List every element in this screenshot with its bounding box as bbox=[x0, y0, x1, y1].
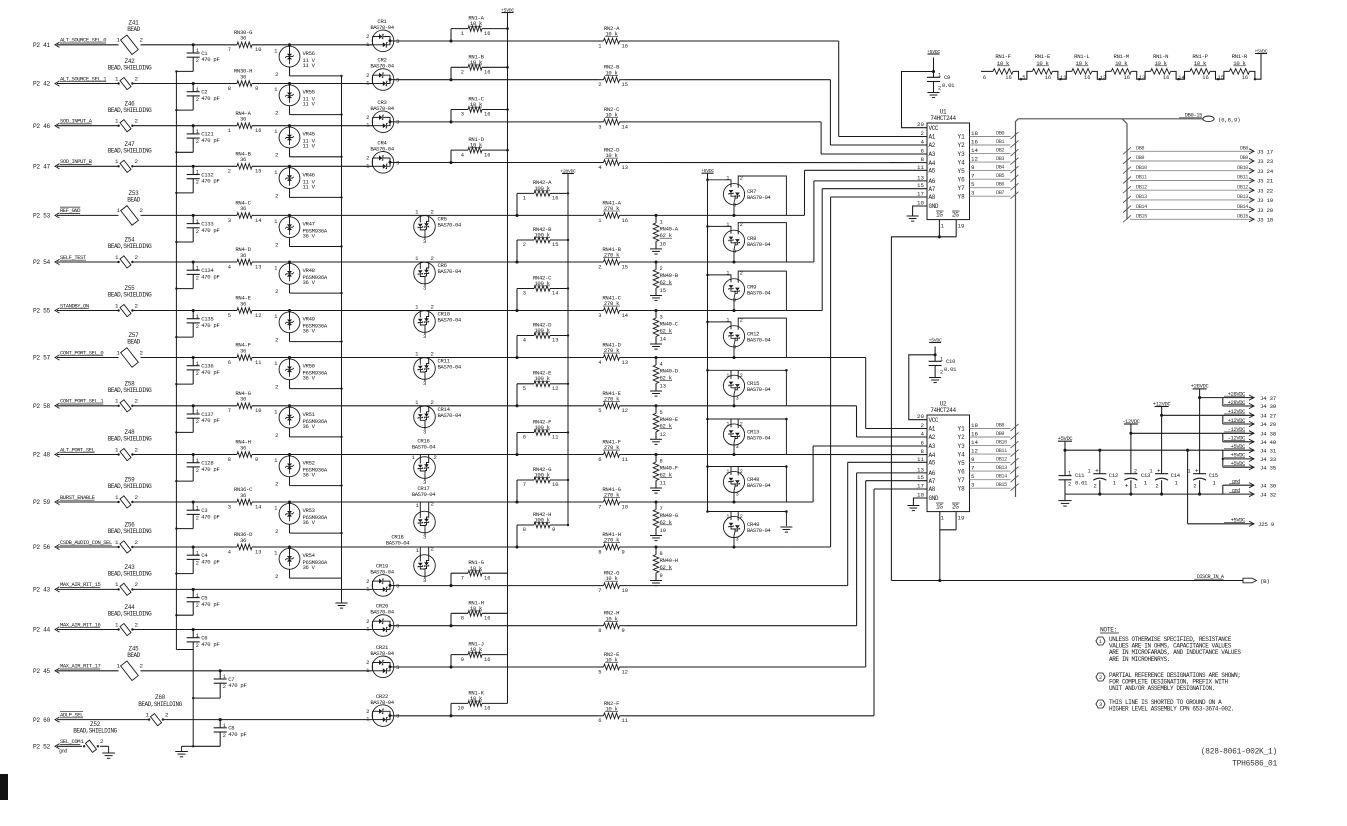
svg-text:C12: C12 bbox=[1109, 472, 1118, 479]
wire U2 Y5 net DB12 bbox=[970, 457, 1019, 466]
svg-text:2: 2 bbox=[275, 481, 278, 488]
svg-text:12: 12 bbox=[255, 313, 261, 319]
wire row 1 right bbox=[394, 39, 598, 42]
wire row 8 left bbox=[57, 357, 193, 359]
svg-text:C11: C11 bbox=[1075, 472, 1085, 479]
svg-text:470 pF: 470 pF bbox=[201, 369, 219, 376]
svg-text:2: 2 bbox=[223, 733, 226, 739]
wire U2 GND + ground bbox=[907, 498, 927, 511]
svg-text:470 pF: 470 pF bbox=[201, 95, 219, 102]
svg-text:2: 2 bbox=[431, 351, 434, 358]
resistor RN42-E bbox=[515, 370, 569, 408]
svg-text:J4 35: J4 35 bbox=[1260, 464, 1277, 471]
svg-text:3: 3 bbox=[598, 313, 601, 319]
svg-text:2: 2 bbox=[1099, 675, 1102, 681]
P2 pin 54 connector stub bbox=[33, 259, 60, 266]
net label ALT_PORT_SEL bbox=[60, 446, 95, 453]
ferrite bead Z48 bbox=[108, 429, 152, 461]
svg-text:1: 1 bbox=[117, 663, 121, 670]
svg-text:470 pF: 470 pF bbox=[201, 601, 219, 608]
svg-text:(6,8,9): (6,8,9) bbox=[1218, 117, 1240, 124]
power output J4 35 bbox=[1223, 461, 1277, 471]
svg-text:36 V: 36 V bbox=[303, 375, 316, 382]
diode CR14 bbox=[290, 399, 462, 435]
svg-text:470 pF: 470 pF bbox=[201, 513, 219, 520]
svg-text:2: 2 bbox=[196, 468, 199, 474]
diode CR5 bbox=[290, 209, 462, 245]
diode CR3 bbox=[290, 99, 400, 133]
resistor RN41-D bbox=[435, 342, 657, 366]
svg-text:11: 11 bbox=[660, 481, 666, 487]
svg-text:1: 1 bbox=[117, 37, 121, 44]
svg-text:DB9: DB9 bbox=[1136, 155, 1144, 161]
svg-text:36: 36 bbox=[240, 73, 246, 80]
svg-text:2: 2 bbox=[135, 581, 139, 588]
svg-text:1: 1 bbox=[726, 422, 729, 428]
svg-text:5: 5 bbox=[523, 386, 526, 392]
svg-text:11: 11 bbox=[552, 435, 558, 441]
wire row 7 to U1 A7 bbox=[786, 189, 927, 311]
svg-text:BEAD: BEAD bbox=[127, 26, 140, 33]
svg-text:470 pF: 470 pF bbox=[201, 466, 219, 473]
diode CR19 bbox=[366, 563, 399, 597]
svg-text:3: 3 bbox=[423, 534, 426, 541]
svg-text:1: 1 bbox=[196, 361, 199, 367]
svg-text:1: 1 bbox=[726, 318, 729, 324]
TVS diode VR52 bbox=[274, 453, 343, 488]
svg-text:3: 3 bbox=[1099, 702, 1102, 708]
svg-text:1: 1 bbox=[115, 158, 119, 165]
svg-text:2: 2 bbox=[196, 58, 199, 64]
svg-text:+12VDC: +12VDC bbox=[1228, 409, 1245, 415]
svg-text:2: 2 bbox=[938, 86, 941, 92]
svg-text:2: 2 bbox=[434, 454, 437, 461]
svg-text:8: 8 bbox=[598, 628, 601, 634]
wire row 6 left bbox=[57, 261, 193, 263]
svg-text:18: 18 bbox=[971, 130, 978, 137]
svg-text:C15: C15 bbox=[1209, 472, 1218, 479]
svg-text:1: 1 bbox=[223, 674, 226, 680]
svg-text:0.01: 0.01 bbox=[1075, 480, 1088, 487]
resistor RN40-G to ground bbox=[650, 502, 679, 541]
svg-text:+: + bbox=[1195, 468, 1199, 475]
svg-text:2: 2 bbox=[140, 207, 144, 214]
wire row 15 right bbox=[394, 665, 598, 668]
wire row 13 right bbox=[394, 584, 598, 587]
net label SELF_TEST bbox=[60, 254, 87, 261]
diode CR4 bbox=[290, 140, 400, 174]
wire row 5 to clamp bank bbox=[656, 214, 786, 216]
svg-text:7: 7 bbox=[598, 504, 601, 510]
svg-text:P2 59: P2 59 bbox=[33, 499, 50, 506]
svg-text:J4 29: J4 29 bbox=[1260, 421, 1277, 428]
wire U2 VCC bbox=[909, 355, 935, 420]
svg-text:BEAD,SHIELDING: BEAD,SHIELDING bbox=[108, 611, 152, 618]
diode CR22 bbox=[366, 693, 399, 727]
svg-text:7: 7 bbox=[523, 482, 526, 488]
svg-text:J25 9: J25 9 bbox=[1258, 521, 1275, 528]
svg-text:13: 13 bbox=[622, 165, 628, 171]
svg-text:2: 2 bbox=[940, 370, 943, 376]
P2 pin 56 connector stub bbox=[33, 544, 60, 551]
svg-text:16: 16 bbox=[1123, 75, 1129, 81]
capacitor C134 bbox=[175, 260, 219, 289]
svg-text:2: 2 bbox=[740, 222, 743, 228]
capacitor C6 bbox=[176, 628, 219, 650]
bus exit DB14 to J3 20 bbox=[1123, 204, 1274, 214]
svg-text:gnd: gnd bbox=[1232, 479, 1240, 485]
svg-text:2G: 2G bbox=[952, 504, 959, 511]
svg-text:BEAD,SHIELDING: BEAD,SHIELDING bbox=[73, 728, 117, 735]
capacitor C135 bbox=[175, 309, 219, 338]
wire row 13 left bbox=[57, 588, 193, 590]
svg-text:16: 16 bbox=[552, 196, 558, 202]
svg-text:3: 3 bbox=[228, 504, 231, 510]
svg-text:13: 13 bbox=[917, 466, 924, 473]
svg-text:2: 2 bbox=[1155, 484, 1158, 490]
svg-text:DB0: DB0 bbox=[996, 131, 1004, 137]
svg-text:13: 13 bbox=[1139, 75, 1145, 81]
svg-text:VR47: VR47 bbox=[303, 220, 315, 227]
svg-text:13: 13 bbox=[917, 174, 924, 181]
svg-text:1: 1 bbox=[726, 271, 729, 277]
svg-text:2: 2 bbox=[366, 618, 369, 625]
svg-text:DB8: DB8 bbox=[996, 423, 1004, 429]
resistor RN2-H bbox=[598, 610, 625, 634]
ferrite bead Z60 bbox=[138, 694, 182, 726]
resistor RN2-F bbox=[598, 700, 628, 724]
svg-text:BAS70-04: BAS70-04 bbox=[412, 444, 436, 451]
svg-text:VR56: VR56 bbox=[303, 50, 315, 57]
svg-text:ALT_SOURCE_SEL_0: ALT_SOURCE_SEL_0 bbox=[60, 37, 106, 44]
svg-text:16: 16 bbox=[622, 218, 628, 224]
svg-text:2: 2 bbox=[921, 130, 925, 137]
wire row 16 to diode bbox=[193, 719, 372, 721]
svg-text:2: 2 bbox=[196, 643, 199, 649]
ferrite bead Z41 bbox=[117, 19, 144, 54]
wire row 16 right bbox=[394, 714, 598, 717]
svg-text:1: 1 bbox=[196, 458, 199, 464]
clamp diode CR9 bbox=[706, 271, 786, 313]
svg-text:3: 3 bbox=[423, 238, 426, 245]
svg-text:1: 1 bbox=[196, 129, 199, 135]
ferrite bead Z52 bbox=[73, 721, 117, 752]
svg-text:SOD_INPUT_A: SOD_INPUT_A bbox=[60, 118, 93, 125]
wire row 16 left bbox=[57, 719, 193, 721]
resistor RN42-F bbox=[515, 418, 569, 456]
svg-text:36: 36 bbox=[240, 492, 246, 499]
svg-text:A8: A8 bbox=[929, 486, 936, 493]
svg-text:1: 1 bbox=[115, 398, 119, 405]
svg-text:470 pF: 470 pF bbox=[228, 682, 246, 689]
svg-text:2: 2 bbox=[223, 684, 226, 690]
wire row 15 left bbox=[57, 670, 193, 672]
svg-text:6: 6 bbox=[983, 75, 986, 81]
resistor RN41-F bbox=[435, 439, 657, 463]
svg-text:4: 4 bbox=[598, 165, 601, 171]
svg-text:Y8: Y8 bbox=[958, 485, 966, 492]
net label SOD_INPUT_B bbox=[60, 158, 93, 165]
svg-text:11: 11 bbox=[255, 360, 261, 366]
svg-text:1: 1 bbox=[81, 738, 85, 745]
svg-text:TPH6586_01: TPH6586_01 bbox=[1232, 760, 1277, 769]
capacitor C4 bbox=[175, 545, 219, 574]
svg-text:CONT_PORT_SEL_1: CONT_PORT_SEL_1 bbox=[60, 398, 104, 405]
svg-text:VR46: VR46 bbox=[303, 171, 315, 178]
wire row 4 left bbox=[57, 165, 193, 167]
svg-text:BEAD,SHIELDING: BEAD,SHIELDING bbox=[108, 528, 152, 535]
svg-text:16: 16 bbox=[1202, 75, 1208, 81]
resistor RN4-D bbox=[193, 246, 289, 270]
svg-text:2: 2 bbox=[431, 500, 434, 507]
resistor RN1-G pullup bbox=[451, 559, 508, 585]
svg-text:0.01: 0.01 bbox=[942, 82, 955, 89]
net label CONT_PORT_SEL_1 bbox=[60, 398, 104, 405]
svg-text:J4 39: J4 39 bbox=[1260, 403, 1277, 410]
svg-text:16: 16 bbox=[255, 128, 261, 134]
svg-text:2G: 2G bbox=[952, 212, 959, 219]
svg-text:5: 5 bbox=[971, 473, 975, 480]
clamp diode CR13 bbox=[706, 418, 788, 456]
svg-text:2: 2 bbox=[135, 494, 139, 501]
capacitor C7 bbox=[192, 669, 247, 699]
wire row 12 to U1 A8 bbox=[786, 197, 927, 547]
svg-text:VR51: VR51 bbox=[303, 411, 316, 418]
svg-text:470 pF: 470 pF bbox=[201, 56, 219, 63]
clamp diode CR12 bbox=[706, 318, 786, 360]
svg-text:ALT_SOURCE_SEL_1: ALT_SOURCE_SEL_1 bbox=[60, 75, 107, 82]
resistor RN41-C bbox=[435, 295, 657, 319]
svg-text:36 V: 36 V bbox=[303, 564, 316, 571]
svg-text:ARE IN MICROHENRYS.: ARE IN MICROHENRYS. bbox=[1109, 656, 1170, 663]
svg-text:3: 3 bbox=[423, 380, 426, 387]
svg-text:A8: A8 bbox=[929, 194, 936, 201]
wire row 2 left bbox=[57, 83, 193, 85]
P2 pin 42 connector stub bbox=[33, 81, 60, 88]
svg-text:BEAD,SHIELDING: BEAD,SHIELDING bbox=[108, 387, 152, 394]
ground rail wire bbox=[1065, 493, 1223, 496]
svg-text:2: 2 bbox=[740, 271, 743, 277]
P2 pin 53 connector stub bbox=[33, 213, 60, 220]
resistor RN41-G bbox=[435, 486, 657, 510]
svg-text:7: 7 bbox=[461, 575, 464, 581]
svg-text:2: 2 bbox=[366, 33, 369, 40]
svg-text:10: 10 bbox=[552, 482, 558, 488]
svg-text:3: 3 bbox=[733, 345, 736, 351]
net label CONT_PORT_SEL_0 bbox=[60, 349, 103, 356]
svg-text:P2 48: P2 48 bbox=[33, 452, 50, 459]
ferrite bead Z54 bbox=[108, 237, 152, 268]
resistor RN42-B bbox=[515, 226, 569, 264]
svg-text:+: + bbox=[1125, 483, 1129, 490]
svg-text:36: 36 bbox=[240, 35, 246, 42]
svg-text:1: 1 bbox=[196, 170, 199, 176]
svg-text:BAS70-04: BAS70-04 bbox=[438, 221, 462, 228]
P2 pin 57 connector stub bbox=[33, 355, 60, 362]
svg-text:BAS70-04: BAS70-04 bbox=[747, 289, 771, 296]
svg-text:36 V: 36 V bbox=[303, 423, 316, 430]
wire row 15 to diode bbox=[193, 670, 372, 672]
wire row 5 to U1 A5 bbox=[786, 170, 927, 215]
wire row 12 left bbox=[57, 546, 193, 548]
P2 pin 58 connector stub bbox=[33, 403, 60, 410]
wire row 10 to U2 A4 bbox=[786, 454, 927, 456]
svg-text:DB11: DB11 bbox=[996, 448, 1007, 454]
svg-text:J3 19: J3 19 bbox=[1257, 197, 1274, 204]
resistor RN4-A bbox=[193, 110, 289, 134]
svg-text:1: 1 bbox=[196, 219, 199, 225]
+5VDC rail (left) bbox=[501, 7, 514, 703]
ground (C10) bbox=[929, 378, 941, 383]
svg-text:DB10: DB10 bbox=[1136, 165, 1147, 171]
svg-text:36 V: 36 V bbox=[303, 519, 316, 526]
svg-text:BAS70-04: BAS70-04 bbox=[370, 650, 394, 657]
power output J4 27 bbox=[1223, 409, 1277, 419]
resistor RN40-A to ground bbox=[650, 215, 679, 254]
svg-text:Y3: Y3 bbox=[958, 151, 966, 158]
svg-text:BAS70-04: BAS70-04 bbox=[386, 540, 410, 547]
svg-text:1: 1 bbox=[117, 207, 121, 214]
wire chain start bbox=[981, 70, 993, 72]
TVS diode VR47 bbox=[274, 214, 343, 249]
svg-text:16: 16 bbox=[484, 575, 490, 581]
svg-text:5: 5 bbox=[598, 669, 601, 675]
svg-text:5: 5 bbox=[228, 313, 231, 319]
wire row 13 to U2 A5 bbox=[625, 462, 927, 585]
svg-text:4: 4 bbox=[921, 431, 925, 438]
svg-text:1: 1 bbox=[228, 128, 231, 134]
ferrite bead Z56 bbox=[108, 522, 152, 553]
svg-text:2: 2 bbox=[135, 539, 139, 546]
resistor RN1-L bbox=[1060, 53, 1111, 81]
svg-text:DB15: DB15 bbox=[996, 482, 1007, 488]
resistor RN1-R bbox=[1218, 53, 1250, 81]
svg-text:11 V: 11 V bbox=[303, 62, 316, 69]
svg-text:2: 2 bbox=[275, 573, 278, 580]
resistor RN4-F bbox=[193, 342, 289, 366]
clamp diode CR15 bbox=[706, 369, 788, 407]
svg-text:1: 1 bbox=[146, 711, 150, 718]
svg-text:2: 2 bbox=[196, 419, 199, 425]
wire row 11 to U2 A3 bbox=[786, 446, 927, 502]
svg-text:2: 2 bbox=[461, 70, 464, 76]
svg-text:DB15: DB15 bbox=[1237, 214, 1248, 220]
capacitor C9 bbox=[927, 58, 955, 93]
op-amp U2 74HCT244 buffer bbox=[917, 401, 978, 522]
resistor RN1-B pullup bbox=[451, 53, 509, 79]
wire U2 Y1 net DB8 bbox=[970, 423, 1019, 432]
svg-text:4: 4 bbox=[921, 139, 925, 146]
svg-text:7: 7 bbox=[971, 173, 975, 180]
VR return bus bbox=[341, 76, 343, 600]
svg-text:10: 10 bbox=[917, 492, 924, 499]
svg-text:2: 2 bbox=[431, 399, 434, 406]
svg-text:J4 37: J4 37 bbox=[1260, 395, 1277, 402]
svg-text:6: 6 bbox=[228, 360, 231, 366]
svg-text:Y2: Y2 bbox=[958, 142, 966, 149]
svg-text:BEAD,SHIELDING: BEAD,SHIELDING bbox=[108, 292, 152, 299]
svg-text:2: 2 bbox=[135, 621, 139, 628]
svg-text:CSDB_AUDIO_CON_SEL: CSDB_AUDIO_CON_SEL bbox=[60, 539, 112, 546]
capacitor C136 bbox=[175, 356, 219, 385]
+28VDC feed bbox=[1191, 384, 1209, 451]
resistor RN41-A bbox=[435, 199, 657, 223]
ferrite bead Z47 bbox=[108, 141, 152, 173]
svg-text:MAX_AIR_RIT_15: MAX_AIR_RIT_15 bbox=[60, 581, 100, 588]
svg-text:16: 16 bbox=[1005, 75, 1011, 81]
svg-text:+: + bbox=[1095, 468, 1099, 475]
svg-text:BAS70-04: BAS70-04 bbox=[747, 435, 771, 442]
capacitor C133 bbox=[175, 214, 219, 243]
svg-text:J3 18: J3 18 bbox=[1257, 217, 1274, 224]
svg-text:Y6: Y6 bbox=[958, 468, 966, 475]
svg-text:STANDBY_ON: STANDBY_ON bbox=[60, 302, 89, 309]
wire row 9 to clamp bank bbox=[656, 405, 786, 407]
svg-text:2: 2 bbox=[598, 264, 601, 270]
svg-text:36 V: 36 V bbox=[303, 472, 316, 479]
svg-text:A6: A6 bbox=[929, 470, 936, 477]
capacitor C137 bbox=[175, 404, 219, 433]
resistor RN4-H bbox=[193, 439, 289, 463]
wire row 11 left bbox=[57, 501, 193, 503]
svg-text:9: 9 bbox=[622, 628, 625, 634]
svg-text:BEAD: BEAD bbox=[127, 652, 140, 659]
svg-text:1: 1 bbox=[196, 87, 199, 93]
svg-text:3: 3 bbox=[461, 112, 464, 118]
wire row 14 to diode bbox=[193, 629, 372, 631]
resistor RN30-G bbox=[193, 29, 289, 53]
wire row 14 left bbox=[57, 629, 193, 631]
svg-text:1: 1 bbox=[523, 196, 526, 202]
resistor RN40-F to ground bbox=[650, 455, 678, 494]
resistor RN4-G bbox=[193, 390, 289, 414]
wire row 10 left bbox=[57, 454, 193, 456]
op-amp U1 74HCT244 buffer bbox=[917, 109, 978, 230]
svg-text:1: 1 bbox=[196, 633, 199, 639]
capacitor C121 bbox=[175, 124, 219, 153]
svg-text:J4 33: J4 33 bbox=[1260, 456, 1277, 463]
svg-text:3: 3 bbox=[733, 202, 736, 208]
ferrite bead Z58 bbox=[108, 380, 152, 412]
svg-text:16: 16 bbox=[484, 706, 490, 712]
ground (VR bus) bbox=[335, 600, 347, 608]
svg-text:J3 23: J3 23 bbox=[1257, 158, 1274, 165]
svg-text:NOTE:: NOTE: bbox=[1100, 627, 1117, 634]
wire row 8 to clamp bank bbox=[656, 357, 786, 359]
svg-text:2: 2 bbox=[366, 72, 369, 79]
diode CR2 bbox=[290, 57, 400, 91]
svg-text:P2 54: P2 54 bbox=[33, 259, 50, 266]
svg-text:2: 2 bbox=[140, 37, 144, 44]
svg-text:1: 1 bbox=[1149, 469, 1152, 475]
P2 pin 55 connector stub bbox=[33, 308, 60, 315]
resistor RN40-D to ground bbox=[650, 358, 679, 397]
svg-text:A1: A1 bbox=[929, 426, 936, 433]
P2 pin 41 connector stub bbox=[33, 42, 60, 49]
svg-text:BAS70-04: BAS70-04 bbox=[370, 609, 394, 616]
svg-text:470 pF: 470 pF bbox=[201, 558, 219, 565]
power output J4 38 bbox=[1223, 427, 1277, 437]
svg-text:16: 16 bbox=[1242, 75, 1248, 81]
svg-text:A4: A4 bbox=[929, 160, 936, 167]
clamp diode CR48 bbox=[706, 465, 788, 503]
svg-text:9: 9 bbox=[660, 573, 663, 579]
svg-text:P2 60: P2 60 bbox=[33, 717, 50, 724]
svg-text:VCC: VCC bbox=[929, 417, 939, 424]
resistor RN2-D bbox=[598, 147, 628, 171]
svg-text:2: 2 bbox=[366, 659, 369, 666]
svg-text:P2 41: P2 41 bbox=[33, 42, 50, 49]
